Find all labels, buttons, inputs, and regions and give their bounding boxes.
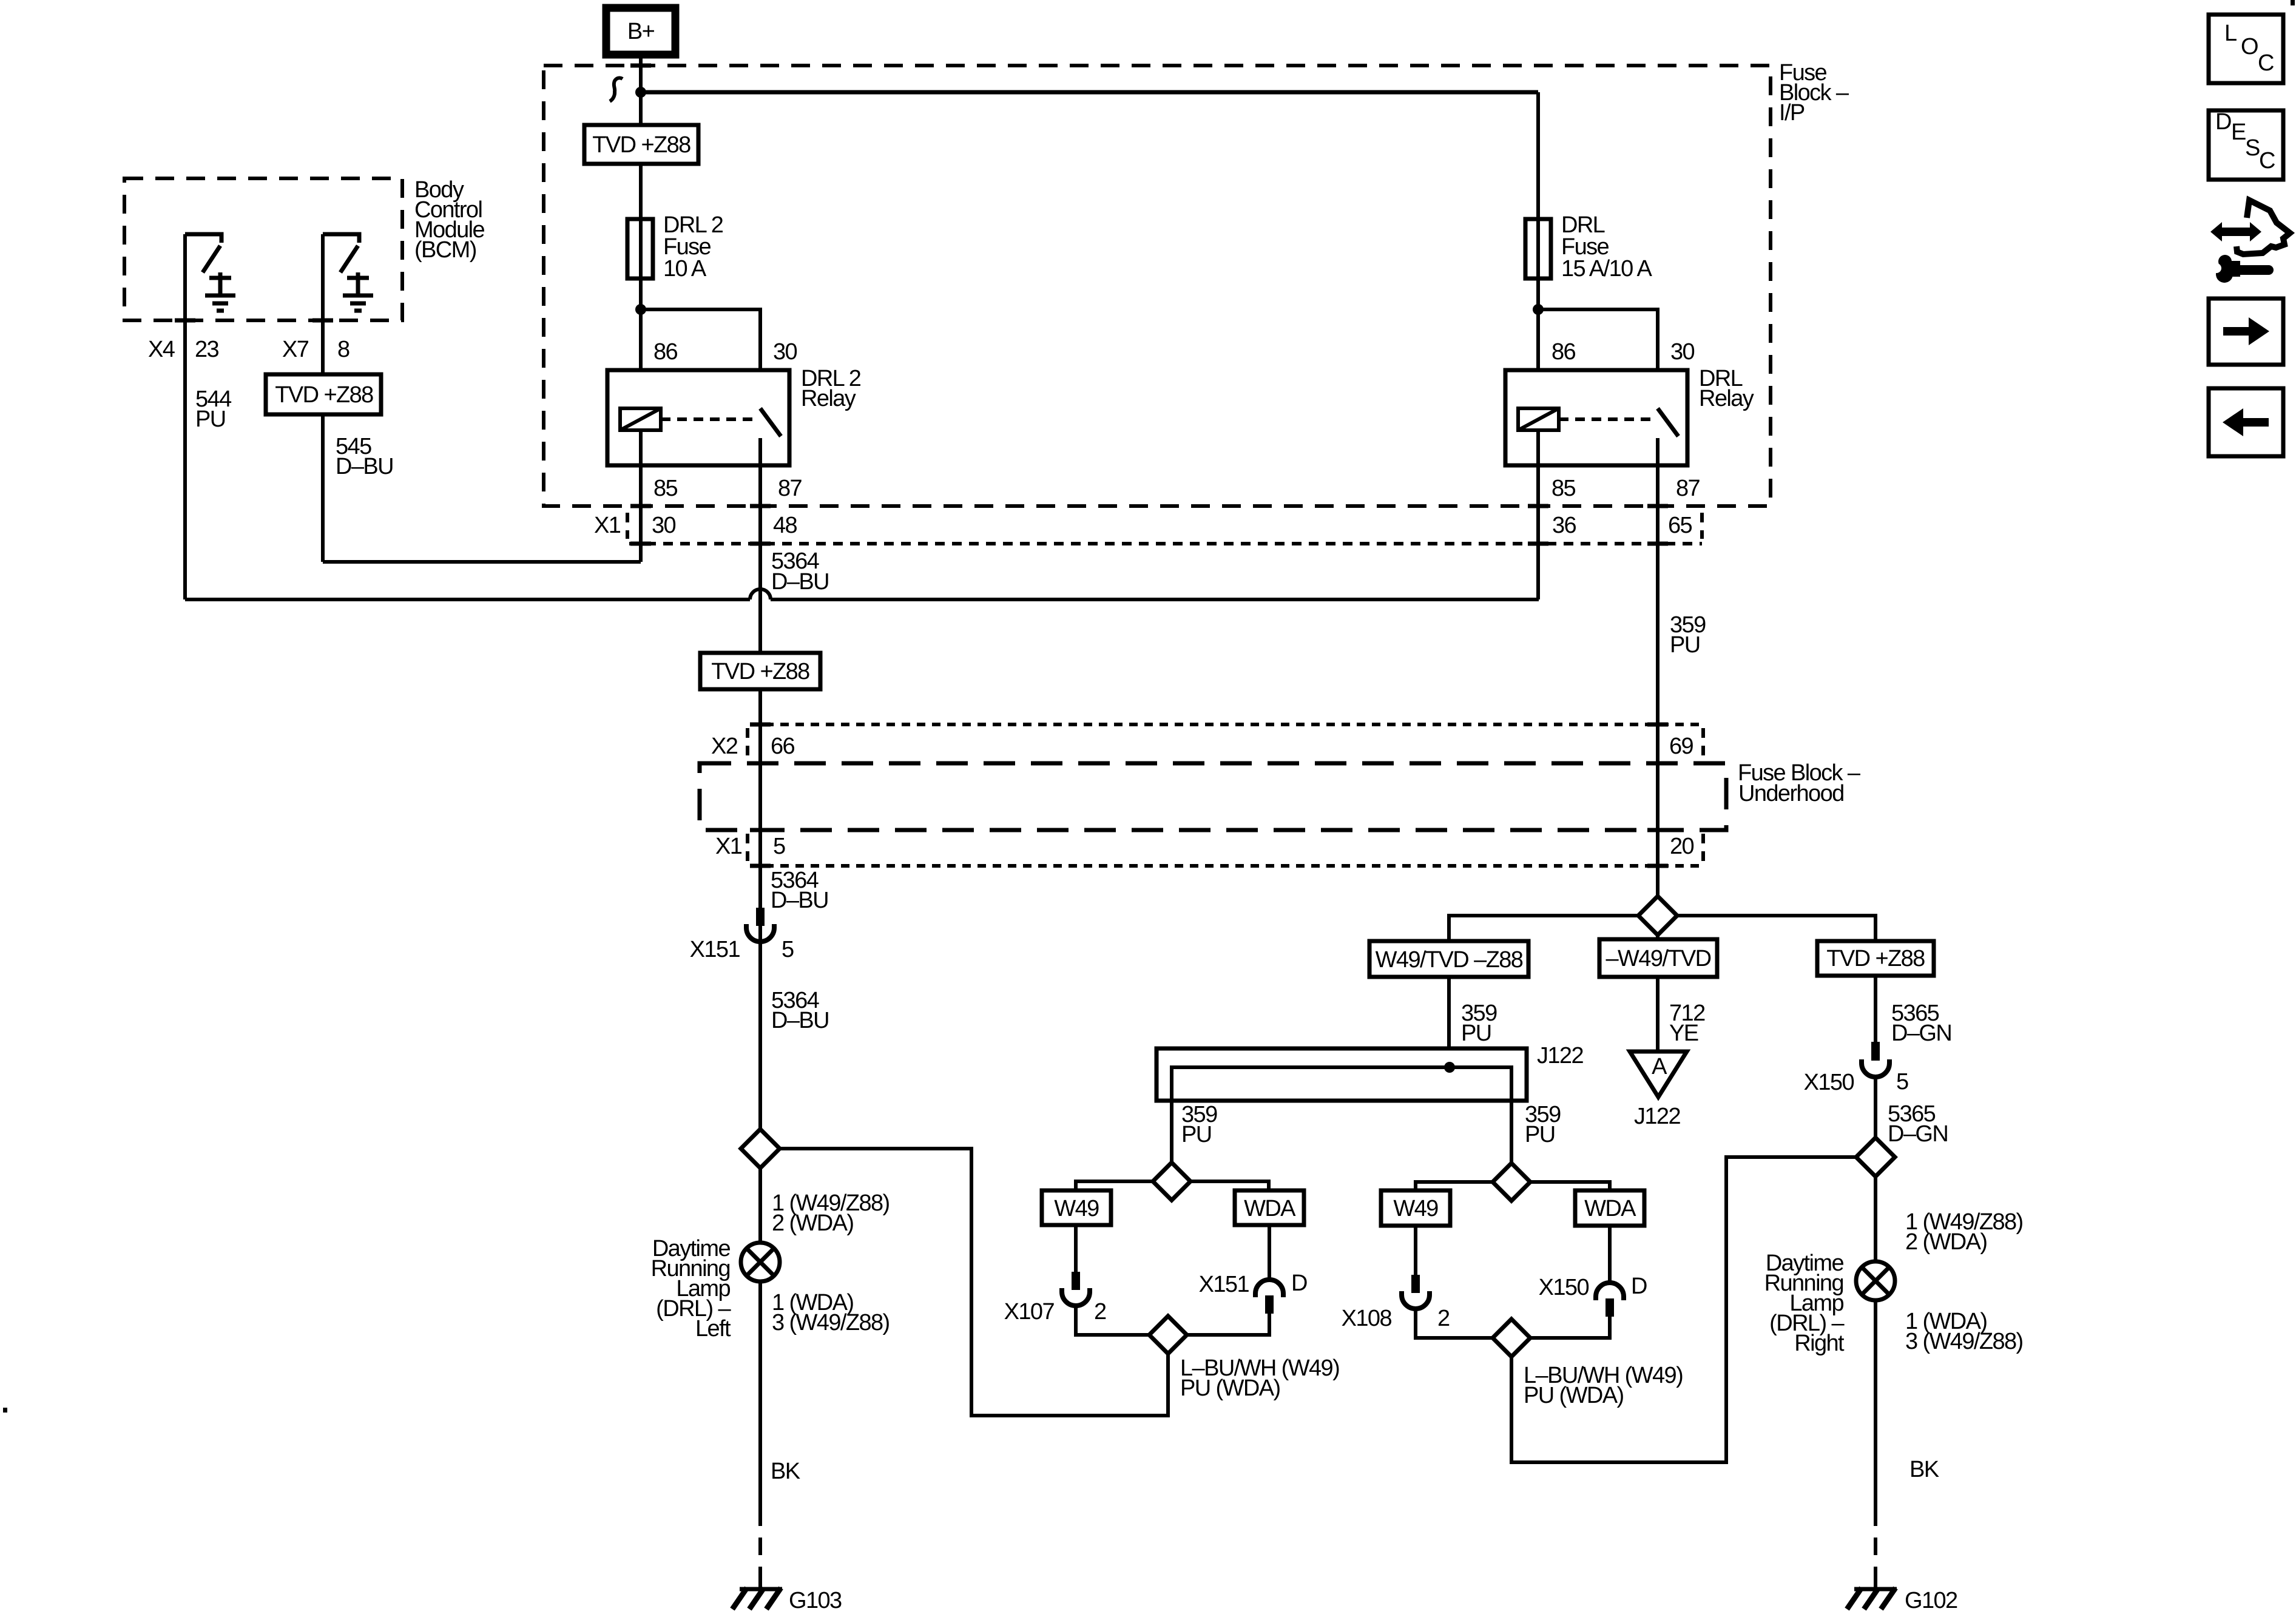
svg-text:D–BU: D–BU [771, 1008, 829, 1033]
svg-text:J122: J122 [1537, 1043, 1583, 1068]
svg-text:2 (WDA): 2 (WDA) [1905, 1229, 1987, 1255]
svg-text:65: 65 [1668, 513, 1692, 538]
label Fuse Block Underhood [1738, 760, 1861, 806]
svg-text:C: C [2258, 50, 2274, 76]
label L-BU/WH (W49) PU (WDA) left [1180, 1355, 1339, 1401]
svg-text:PU: PU [1181, 1122, 1212, 1147]
icon box back arrow [2209, 388, 2283, 456]
svg-text:Left: Left [695, 1316, 731, 1342]
svg-text:D–GN: D–GN [1891, 1021, 1951, 1046]
wire fuse to relay [639, 279, 643, 408]
svg-text:85: 85 [653, 476, 678, 501]
wire DRL relay 85 down to feed [1536, 430, 1540, 599]
svg-text:PU (WDA): PU (WDA) [1180, 1376, 1280, 1401]
wire relay 85 down [639, 430, 643, 562]
wire to DRL relay pin 30 [1538, 309, 1658, 408]
connector X150 pin D [1596, 1283, 1624, 1317]
svg-text:87: 87 [778, 476, 802, 501]
wire diamond to W49/TVD -Z88 [1449, 916, 1638, 941]
svg-text:O: O [2241, 34, 2258, 59]
svg-text:48: 48 [773, 513, 797, 538]
relay DRL 2 pin 87 stub [758, 438, 762, 465]
wire to WDA box (right pair) [1530, 1182, 1610, 1190]
svg-text:2: 2 [1437, 1306, 1450, 1331]
svg-text:69: 69 [1669, 734, 1693, 759]
svg-text:W49: W49 [1054, 1196, 1099, 1221]
svg-text:8: 8 [337, 337, 349, 362]
power symbol B+ [606, 8, 675, 55]
relay DRL coil-switch link [1559, 417, 1654, 421]
svg-text:PU (WDA): PU (WDA) [1524, 1383, 1624, 1408]
svg-text:G103: G103 [789, 1588, 842, 1613]
svg-text:L: L [2224, 21, 2237, 46]
svg-text:TVD +Z88: TVD +Z88 [592, 132, 690, 158]
wire B+ down [639, 55, 643, 126]
svg-text:30: 30 [652, 513, 676, 538]
label DRL 2 Fuse 10 A [663, 212, 723, 282]
icon box LOC [2209, 15, 2283, 83]
fuse block I/P dashed outline [544, 66, 1771, 506]
junction node below DRL fuse [1533, 304, 1544, 315]
lamp DRL left [741, 1243, 780, 1281]
svg-text:(BCM): (BCM) [414, 237, 476, 263]
label Body Control Module (BCM) [414, 177, 484, 263]
wire to W49 box (left pair) [1076, 1181, 1153, 1190]
svg-text:TVD +Z88: TVD +Z88 [711, 659, 809, 684]
svg-text:S: S [2245, 135, 2260, 161]
svg-text:G102: G102 [1905, 1588, 1957, 1613]
label DRL Relay [1699, 366, 1754, 411]
icon box DESC [2209, 109, 2283, 180]
wire to W49 box (right pair) [1416, 1182, 1493, 1190]
svg-text:X108: X108 [1342, 1306, 1392, 1331]
lamp DRL right [1856, 1261, 1895, 1300]
svg-text:PU: PU [195, 407, 226, 432]
label box W49 (left pair) [1042, 1190, 1111, 1225]
stray mark bottom left [3, 1408, 7, 1413]
splice diamond X107 branch bottom [1149, 1316, 1187, 1354]
svg-text:X4: X4 [148, 337, 175, 362]
splice diamond left lamp [741, 1129, 780, 1168]
label box -W49/TVD [1599, 939, 1717, 977]
label box TVD +Z88 (left I/P) [584, 125, 698, 164]
label 359 PU (under W49/TVD -Z88) [1461, 1001, 1497, 1046]
icon box next arrow [2209, 299, 2283, 365]
svg-text:85: 85 [1551, 476, 1576, 501]
wire diamond to lamp [758, 1168, 762, 1243]
wire TVD to fuse [639, 164, 643, 219]
wire W49 to X108 [1414, 1226, 1417, 1275]
label 5364 D-BU (mid) [771, 868, 828, 913]
svg-text:X1: X1 [715, 834, 742, 859]
fuse DRL 2 [627, 219, 653, 279]
junction node at B+ feed [635, 87, 646, 98]
label 1 (WDA) 3 (W49/Z88) lower left lamp [772, 1290, 890, 1335]
svg-text:D: D [2215, 109, 2231, 135]
fuse block underhood dashed outline [700, 763, 1726, 830]
wire 544 PU [183, 234, 187, 599]
label 545 D-BU [336, 434, 393, 479]
label box WDA (left pair) [1235, 1190, 1304, 1225]
junction node on J122 bus [1444, 1062, 1455, 1073]
wire X107 to splice [1076, 1306, 1149, 1335]
svg-text:D–BU: D–BU [771, 569, 829, 595]
relay DRL 2 coil-switch link [661, 417, 757, 421]
connector X151 pin D [1255, 1280, 1283, 1314]
connector X2 underhood dotted row [748, 724, 1703, 758]
label 1 (W49/Z88) 2 (WDA) upper right lamp [1905, 1209, 2023, 1255]
svg-text:PU: PU [1525, 1122, 1555, 1147]
label box TVD +Z88 (mid) [700, 653, 820, 689]
svg-text:10 A: 10 A [663, 256, 707, 282]
svg-text:3 (W49/Z88): 3 (W49/Z88) [772, 1310, 890, 1335]
relay DRL coil [1518, 408, 1559, 430]
wire X151 D to splice [1187, 1314, 1269, 1335]
svg-text:Underhood: Underhood [1738, 781, 1844, 806]
wire TVD right to X150 [1874, 976, 1877, 1042]
svg-text:5: 5 [1896, 1069, 1908, 1095]
label box W49/TVD -Z88 [1369, 941, 1528, 977]
wire W49/TVD -Z88 to J122 [1447, 977, 1451, 1067]
svg-text:BK: BK [771, 1459, 800, 1484]
wire to relay pin 30 [641, 309, 760, 408]
label Fuse Block I/P [1779, 60, 1849, 126]
label DRL Fuse 15 A/10 A [1561, 212, 1653, 282]
svg-text:86: 86 [653, 339, 678, 365]
wire X108 to splice [1416, 1309, 1493, 1338]
wire W49 to X107 [1074, 1225, 1078, 1272]
svg-text:YE: YE [1669, 1021, 1698, 1046]
wire feed to DRL fuse [1536, 92, 1540, 219]
label 1 (W49/Z88) 2 (WDA) upper left lamp [772, 1190, 890, 1236]
svg-text:W49/TVD –Z88: W49/TVD –Z88 [1376, 947, 1523, 973]
relay DRL 2 box [607, 370, 789, 465]
svg-text:TVD +Z88: TVD +Z88 [1826, 946, 1925, 971]
ground G103 [732, 1576, 782, 1609]
svg-text:X2: X2 [711, 734, 738, 759]
wire hop arc over 5364 [750, 589, 771, 599]
current hook symbol [610, 78, 623, 101]
icon wrench and arrows [2206, 200, 2290, 283]
wire X150 D to splice [1530, 1317, 1610, 1338]
wire fuse to relay coil [1536, 279, 1540, 408]
label 1 (WDA) 3 (W49/Z88) lower right lamp [1905, 1309, 2023, 1354]
splice diamond right lamp [1856, 1138, 1895, 1176]
svg-text:X150: X150 [1804, 1070, 1854, 1095]
wire diamond to TVD +Z88 right [1677, 916, 1876, 941]
svg-text:23: 23 [195, 337, 219, 362]
svg-text:15 A/10 A: 15 A/10 A [1561, 256, 1653, 282]
svg-text:D–BU: D–BU [336, 454, 393, 479]
wire 5364 D-BU from relay 87 [758, 465, 762, 653]
wire X150 to diamond [1874, 1077, 1877, 1138]
wire 545 D-BU [321, 234, 325, 562]
splice diamond 359 distribution [1638, 896, 1677, 935]
svg-text:PU: PU [1670, 632, 1700, 658]
dashed ground lead left [758, 1508, 762, 1589]
svg-text:E: E [2231, 120, 2246, 145]
label Daytime Running Lamp (DRL) Left [651, 1236, 732, 1342]
svg-text:Relay: Relay [801, 386, 856, 411]
wire right lamp to ground [1874, 1300, 1877, 1508]
BCM box [124, 178, 402, 320]
wire to WDA box (left pair) [1190, 1181, 1269, 1190]
svg-text:W49: W49 [1393, 1196, 1438, 1221]
wire 359 PU from relay 87 [1656, 465, 1660, 896]
wire diamond to -W49/TVD [1656, 935, 1660, 941]
connector X1 underhood dotted row [748, 834, 1703, 866]
splice diamond X108 branch top [1493, 1163, 1530, 1201]
svg-text:BK: BK [1909, 1457, 1939, 1482]
svg-text:X151: X151 [1199, 1272, 1249, 1297]
svg-text:X7: X7 [282, 337, 309, 362]
junction node below DRL 2 fuse [635, 304, 646, 315]
label 712 YE [1669, 1001, 1705, 1046]
wire WDA to X150 D [1608, 1226, 1612, 1283]
svg-text:X107: X107 [1004, 1299, 1055, 1325]
wire crossing ticks at connector rows [175, 66, 1668, 866]
wire TVD mid down [758, 689, 762, 1129]
connector X1 I/P dotted row [627, 513, 1702, 544]
svg-text:X1: X1 [594, 513, 621, 538]
label box W49 (right pair) [1381, 1190, 1450, 1226]
svg-text:5: 5 [782, 937, 794, 962]
label box TVD +Z88 (BCM output) [266, 374, 381, 414]
wire J122 internal bus [1172, 1067, 1511, 1164]
wire WDA to X151 D [1268, 1225, 1271, 1280]
splice pack J122 bus [1156, 1048, 1527, 1101]
splice triangle A J122 [1630, 1052, 1687, 1097]
svg-text:A: A [1652, 1054, 1667, 1079]
label box TVD +Z88 (right) [1817, 941, 1934, 976]
relay DRL pin 87 stub [1656, 438, 1660, 465]
label L-BU/WH (W49) PU (WDA) right [1524, 1363, 1683, 1408]
BCM driver switch X4 [185, 234, 221, 272]
svg-text:WDA: WDA [1244, 1196, 1296, 1221]
svg-text:PU: PU [1461, 1021, 1491, 1046]
label 5365 D-GN (upper) [1891, 1001, 1951, 1046]
wire lamp left to ground [758, 1281, 762, 1508]
svg-text:66: 66 [771, 734, 795, 759]
svg-text:I/P: I/P [1779, 100, 1805, 126]
svg-text:X151: X151 [690, 937, 740, 962]
svg-text:D–BU: D–BU [771, 888, 828, 913]
svg-text:36: 36 [1552, 513, 1576, 538]
svg-text:30: 30 [1670, 339, 1695, 365]
label DRL 2 Relay [801, 366, 861, 411]
svg-text:X150: X150 [1539, 1275, 1589, 1300]
svg-text:Relay: Relay [1699, 386, 1754, 411]
label 359 PU (above X107 splice) [1181, 1102, 1217, 1147]
relay DRL 2 coil [620, 408, 661, 430]
label 5365 D-GN (lower) [1888, 1101, 1948, 1147]
svg-text:C: C [2259, 148, 2275, 174]
label 5364 D-BU (lower) [771, 988, 829, 1033]
svg-text:5: 5 [773, 834, 785, 859]
svg-text:Right: Right [1794, 1331, 1845, 1356]
page corner mark [2291, 0, 2295, 5]
label Daytime Running Lamp (DRL) Right [1764, 1251, 1845, 1356]
BCM internal ground (X7 side) [343, 272, 373, 311]
svg-text:3 (W49/Z88): 3 (W49/Z88) [1905, 1329, 2023, 1354]
label 359 PU (upper) [1670, 612, 1706, 658]
BCM internal ground (X4 side) [205, 272, 235, 311]
BCM driver switch X7 [323, 234, 359, 272]
svg-text:B+: B+ [627, 19, 655, 44]
connector X151 pin 5 [746, 908, 774, 942]
ground G102 [1847, 1576, 1897, 1609]
svg-text:WDA: WDA [1584, 1196, 1636, 1221]
svg-text:20: 20 [1670, 834, 1694, 859]
svg-text:2 (WDA): 2 (WDA) [772, 1210, 853, 1236]
label 544 PU [195, 387, 232, 432]
svg-text:–W49/TVD: –W49/TVD [1606, 946, 1710, 971]
svg-text:2: 2 [1094, 1299, 1106, 1325]
wire top feed horizontal [641, 90, 1538, 95]
dashed ground lead right [1874, 1508, 1877, 1589]
connector X108 pin 2 [1402, 1275, 1430, 1309]
wire 545 D-BU horizontal to pin 85 [323, 560, 641, 564]
svg-text:30: 30 [773, 339, 797, 365]
relay DRL switch blade [1658, 408, 1678, 436]
svg-text:J122: J122 [1634, 1104, 1680, 1129]
svg-text:87: 87 [1676, 476, 1700, 501]
label 359 PU (above X108 splice) [1525, 1102, 1561, 1147]
connector X150 pin 5 [1862, 1042, 1889, 1077]
svg-text:TVD +Z88: TVD +Z88 [275, 382, 373, 408]
wire right lamp parallel loop [1511, 1157, 1856, 1462]
label 5364 D-BU (upper) [771, 549, 829, 595]
wire diamond to right lamp [1874, 1176, 1877, 1261]
svg-text:D: D [1631, 1274, 1647, 1299]
splice diamond X108 branch bottom [1493, 1319, 1530, 1357]
svg-text:86: 86 [1551, 339, 1576, 365]
wire -W49/TVD to splice A [1656, 977, 1660, 1052]
label box WDA (right pair) [1575, 1190, 1644, 1226]
relay DRL 2 switch blade [760, 408, 781, 436]
wire left lamp parallel loop [780, 1149, 1168, 1416]
splice diamond X107 branch top [1153, 1163, 1190, 1200]
wire ground feed horizontal with hop [185, 598, 1539, 601]
svg-text:D: D [1291, 1271, 1307, 1296]
fuse DRL [1525, 219, 1551, 279]
relay DRL box [1505, 370, 1687, 465]
connector X107 pin 2 [1062, 1272, 1090, 1306]
svg-text:D–GN: D–GN [1888, 1121, 1948, 1147]
